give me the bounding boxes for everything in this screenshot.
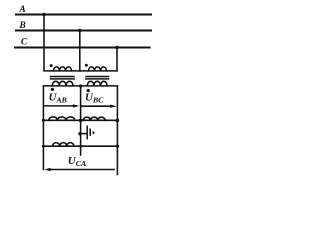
wire: B drop to T2 primary: [80, 70, 117, 72]
bus line C: [15, 46, 150, 48]
transformer T1 core: [51, 77, 75, 79]
wire: phase B drop to primaries: [79, 31, 81, 71]
transformer T1 secondary winding: [43, 85, 80, 87]
svg-text:UCA: UCA: [68, 155, 86, 168]
polarity dot T1 secondary: [51, 88, 54, 91]
transformer T1 primary winding: [54, 67, 72, 71]
burden coil row1 right: [81, 119, 118, 121]
ground tap wire: [81, 133, 87, 135]
bus line B: [16, 29, 151, 31]
svg-text:UBC: UBC: [85, 92, 104, 105]
svg-text:B: B: [18, 21, 25, 31]
node A junction dot: [42, 13, 45, 16]
node row1-rail3 dot: [116, 119, 120, 123]
wire: left secondary rail: [42, 86, 44, 170]
svg-text:UAB: UAB: [49, 92, 67, 105]
node row2-rail2 dot: [79, 145, 82, 148]
node row2-rail3 dot: [116, 145, 119, 148]
node ground tap dot: [78, 132, 81, 135]
arrow U_AB: [45, 105, 76, 107]
node row1-rail1 dot: [42, 119, 45, 122]
ground symbol (rotated): [86, 126, 88, 138]
node row1-rail2 dot: [79, 119, 83, 123]
wire: middle secondary rail: [80, 86, 82, 155]
polarity dot T2 primary: [85, 64, 88, 67]
svg-text:C: C: [21, 37, 28, 47]
wire: right secondary rail: [116, 86, 118, 175]
node: middle rail tap dot: [79, 84, 82, 87]
arrow U_CA: [48, 169, 114, 171]
node row2-rail1 dot: [42, 145, 45, 148]
transformer T2 secondary winding: [81, 85, 118, 87]
arrow U_BC: [81, 105, 112, 107]
polarity dot T2 secondary: [87, 89, 90, 92]
node B junction dot: [78, 29, 81, 32]
polarity dot T1 primary: [50, 64, 53, 67]
bus line A: [16, 13, 151, 15]
node C junction dot: [115, 46, 118, 49]
burden coil row1 left: [43, 119, 80, 121]
wire: phase A drop to primary 1: [44, 15, 80, 71]
transformer T2 core: [86, 77, 109, 79]
burden coil row2: [43, 145, 117, 147]
wire: phase C drop to primary 2: [116, 48, 118, 71]
svg-text:A: A: [18, 5, 25, 15]
transformer T2 primary winding: [89, 67, 107, 71]
